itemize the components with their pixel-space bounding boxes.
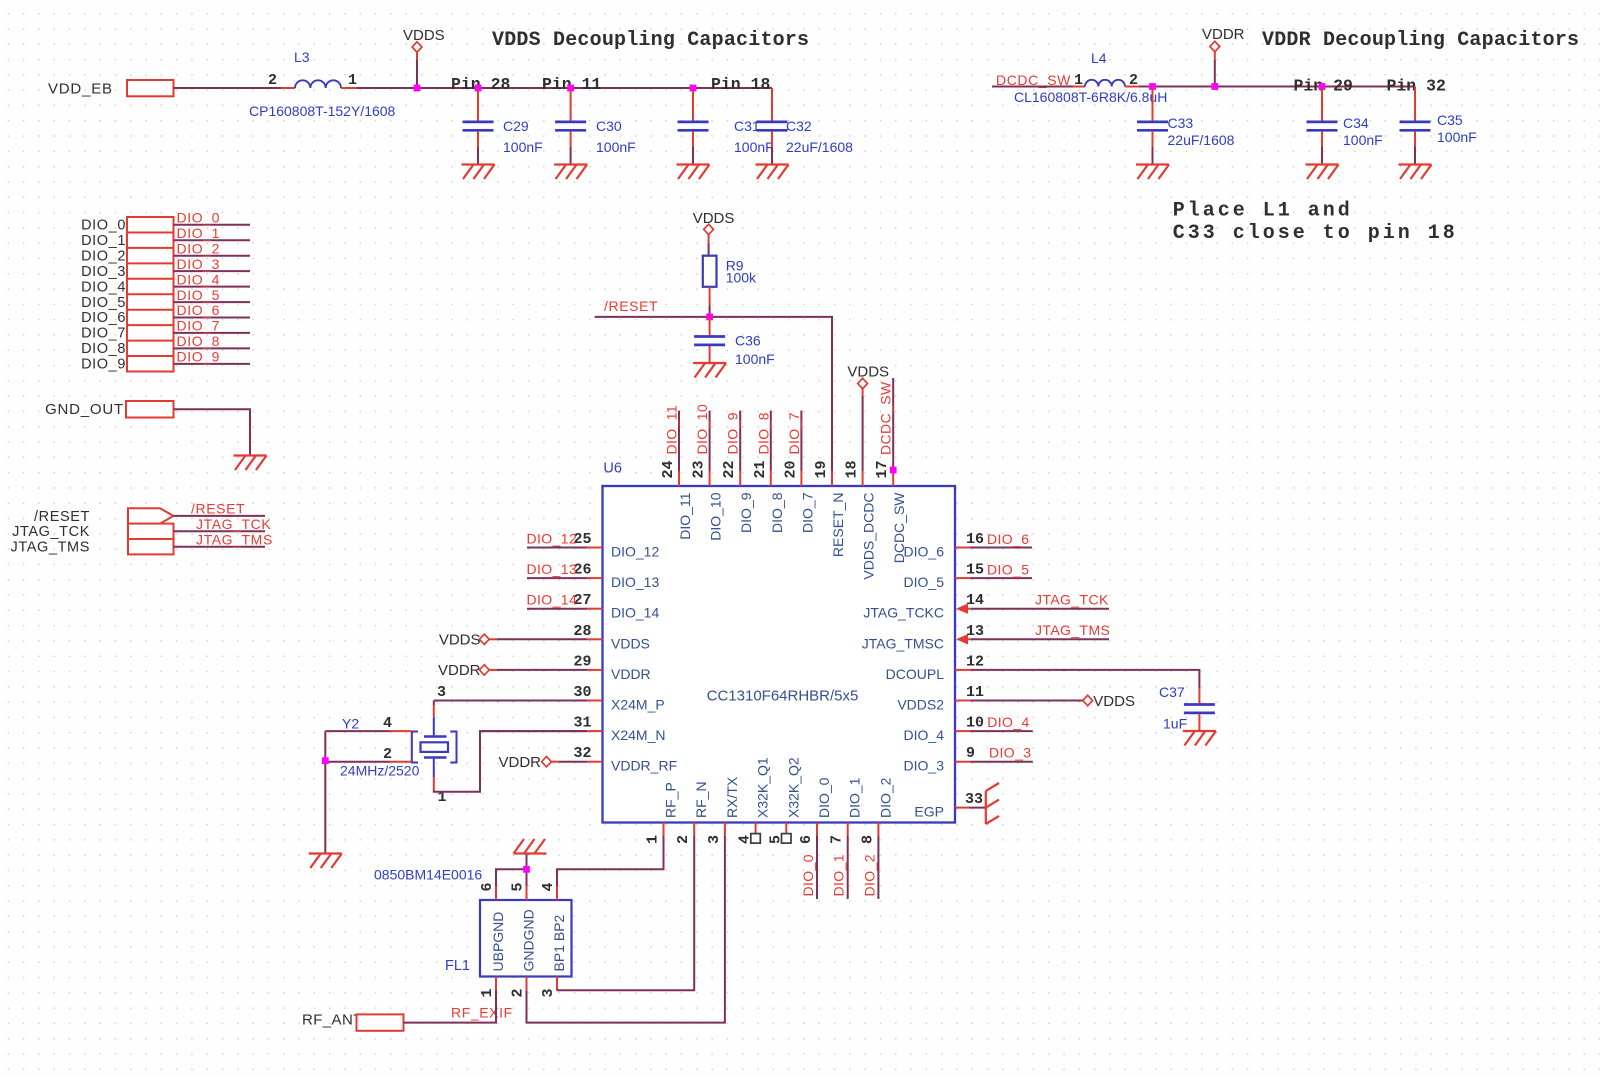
svg-text:12: 12 — [966, 653, 984, 670]
pin 10 (DIO_4) — [904, 715, 984, 744]
svg-text:33: 33 — [965, 791, 983, 808]
net label DIO_8 — [755, 411, 771, 471]
svg-text:DIO_9: DIO_9 — [725, 412, 741, 454]
svg-text:DIO_0: DIO_0 — [816, 777, 832, 818]
svg-text:10: 10 — [966, 715, 984, 732]
svg-text:DIO_9: DIO_9 — [81, 357, 126, 373]
svg-text:DIO_11: DIO_11 — [664, 405, 680, 455]
svg-text:22: 22 — [721, 460, 738, 478]
pin 9 (DIO_3) — [904, 745, 975, 774]
svg-text:30: 30 — [573, 684, 591, 701]
wire FL1 pin2 to RX/TX — [527, 836, 725, 1023]
svg-text:9: 9 — [966, 745, 975, 762]
svg-text:DIO_13: DIO_13 — [527, 561, 578, 577]
svg-text:DIO_6: DIO_6 — [904, 544, 945, 560]
svg-text:1: 1 — [1074, 72, 1083, 89]
svg-text:RX/TX: RX/TX — [724, 776, 740, 818]
pin 2 (RF_N) — [675, 781, 709, 844]
wire RF_ANT to FL1 pin1 — [404, 991, 497, 1023]
svg-text:100nF: 100nF — [503, 139, 543, 155]
pin 1 (RF_P) — [645, 782, 679, 844]
wire R9 to /RESET net — [709, 287, 711, 305]
svg-text:CC1310F64RHBR/5x5: CC1310F64RHBR/5x5 — [707, 688, 859, 705]
svg-text:DIO_2: DIO_2 — [877, 777, 893, 818]
svg-text:18: 18 — [844, 460, 861, 478]
svg-text:100nF: 100nF — [735, 351, 775, 367]
pin 22 (DIO_9) — [721, 460, 754, 532]
pin 27 (DIO_14) — [573, 592, 659, 621]
svg-text:FL1: FL1 — [445, 958, 470, 974]
node DIO_1 — [81, 225, 250, 249]
svg-text:RF_ANT: RF_ANT — [302, 1012, 363, 1029]
node DIO_9 — [81, 349, 250, 373]
ground — [554, 165, 587, 180]
svg-text:VDDS2: VDDS2 — [897, 697, 944, 713]
ground — [1306, 165, 1339, 180]
connector RF_ANT — [302, 1012, 404, 1031]
svg-text:Place L1 and: Place L1 and — [1173, 200, 1353, 223]
pin 26 (DIO_13) — [573, 562, 659, 591]
svg-text:VDDS: VDDS — [693, 210, 735, 227]
ground — [1183, 731, 1216, 746]
junction — [414, 85, 421, 92]
svg-text:/RESET: /RESET — [604, 298, 658, 314]
pin 4 (X32K_Q1) — [737, 757, 771, 844]
wire FL1 pin6 to pin5 ground — [496, 869, 527, 886]
pin 31 (X24M_N) — [573, 715, 665, 744]
wire DCOUPL to C37 — [971, 670, 1200, 688]
junction — [1149, 83, 1156, 90]
wire X24M_N — [480, 730, 587, 732]
pin 13 (JTAG_TMSC) — [862, 623, 984, 652]
svg-text:C34: C34 — [1343, 115, 1369, 131]
capacitor C34 — [1307, 88, 1383, 165]
svg-text:2: 2 — [1129, 72, 1138, 89]
svg-text:CP160808T-152Y/1608: CP160808T-152Y/1608 — [249, 103, 396, 119]
svg-text:DIO_1: DIO_1 — [177, 225, 220, 241]
svg-text:X32K_Q1: X32K_Q1 — [755, 757, 771, 818]
svg-text:CL160808T-6R8K/6.8uH: CL160808T-6R8K/6.8uH — [1014, 89, 1167, 105]
svg-text:DIO_7: DIO_7 — [799, 492, 815, 533]
power VDDS (pin 28) — [439, 632, 587, 649]
svg-text:DIO_9: DIO_9 — [177, 349, 220, 365]
svg-text:DIO_2: DIO_2 — [81, 248, 126, 264]
svg-text:GND_OUT: GND_OUT — [45, 401, 124, 418]
svg-text:C32: C32 — [786, 118, 812, 134]
node JTAG_TMS — [11, 531, 273, 555]
svg-text:6: 6 — [798, 835, 815, 844]
pin 23 (DIO_10) — [691, 460, 724, 540]
wire GND_OUT to ground — [174, 409, 251, 455]
pin 29 (VDDR) — [573, 653, 650, 682]
connector DIO header — [127, 217, 174, 372]
pin 25 (DIO_12) — [573, 531, 659, 560]
svg-text:Pin 18: Pin 18 — [711, 75, 771, 94]
pin 11 (VDDS2) — [897, 684, 984, 713]
net label DIO_2 — [861, 836, 878, 899]
svg-text:DCDC_SW: DCDC_SW — [878, 381, 894, 455]
svg-text:6: 6 — [479, 882, 496, 891]
net label DIO_5 — [971, 562, 1033, 579]
power VDDR (pin 29) — [438, 662, 587, 679]
svg-text:DIO_6: DIO_6 — [177, 302, 220, 318]
node DIO_3 — [81, 256, 250, 280]
pin 3 (RX/TX) — [706, 776, 740, 844]
power VDDS — [693, 210, 735, 256]
balun FL1 — [374, 867, 572, 977]
pin 8 (DIO_2) — [859, 777, 893, 844]
svg-text:29: 29 — [573, 653, 591, 670]
svg-text:DIO_7: DIO_7 — [177, 318, 220, 334]
pin 1 of FL1 — [479, 977, 496, 998]
svg-text:X24M_P: X24M_P — [611, 697, 665, 713]
svg-text:/RESET: /RESET — [34, 509, 90, 525]
svg-text:JTAG_TMS: JTAG_TMS — [1035, 622, 1110, 638]
svg-text:UBPGND: UBPGND — [490, 912, 506, 972]
pin 5 of FL1 — [510, 882, 527, 900]
resistor R9 — [703, 256, 757, 287]
power VDDS — [403, 27, 445, 88]
svg-text:17: 17 — [874, 460, 891, 478]
svg-text:11: 11 — [966, 684, 984, 701]
pin 30 (X24M_P) — [573, 684, 664, 713]
svg-text:/RESET: /RESET — [191, 501, 245, 517]
node JTAG_TCK — [12, 516, 271, 540]
svg-text:VDDS_DCDC: VDDS_DCDC — [861, 493, 877, 580]
svg-text:DIO_1: DIO_1 — [81, 233, 126, 249]
svg-text:1: 1 — [645, 835, 662, 844]
net label DIO_10 — [694, 404, 710, 471]
svg-text:4: 4 — [540, 882, 557, 891]
net label DIO_14 — [527, 592, 588, 609]
svg-text:100nF: 100nF — [1343, 132, 1383, 148]
svg-text:8: 8 — [859, 835, 876, 844]
svg-text:23: 23 — [691, 460, 708, 478]
svg-text:100nF: 100nF — [1437, 129, 1477, 145]
pin 17 (DCDC_SW) — [874, 460, 907, 563]
ground (up) — [514, 839, 547, 854]
net label JTAG_TMS — [971, 622, 1110, 639]
svg-text:13: 13 — [966, 623, 984, 640]
svg-text:RF_N: RF_N — [693, 781, 709, 818]
svg-text:VDDR_RF: VDDR_RF — [611, 758, 677, 774]
IC U6 CC1310F64RHBR — [603, 486, 956, 823]
ground EGP (pin 33) — [969, 783, 999, 824]
capacitor C31 — [678, 89, 774, 164]
ground — [309, 854, 342, 869]
svg-text:DIO_12: DIO_12 — [611, 544, 659, 560]
svg-text:100nF: 100nF — [734, 139, 774, 155]
ground — [234, 456, 267, 471]
ground — [693, 363, 726, 378]
pin 6 of FL1 — [479, 882, 496, 900]
svg-text:24: 24 — [660, 460, 677, 478]
capacitor C36 — [694, 317, 775, 367]
svg-text:DIO_5: DIO_5 — [81, 295, 126, 311]
svg-text:DIO_8: DIO_8 — [769, 492, 785, 533]
junction — [890, 467, 897, 474]
svg-text:21: 21 — [752, 460, 769, 478]
junction — [1211, 83, 1218, 90]
net label DIO_11 — [664, 405, 680, 471]
net label DCDC_SW (pin 17) — [878, 378, 894, 470]
junction — [706, 314, 713, 321]
ground — [677, 165, 710, 180]
svg-text:VDDS: VDDS — [611, 635, 650, 651]
svg-text:20: 20 — [782, 460, 799, 478]
svg-text:VDDR: VDDR — [498, 754, 541, 771]
svg-text:C35: C35 — [1437, 112, 1463, 128]
net label DIO_0 — [800, 836, 817, 899]
junction — [1319, 83, 1326, 90]
power VDDS (pin 18) — [847, 364, 889, 472]
svg-text:DIO_8: DIO_8 — [755, 412, 771, 454]
pin 16 (DIO_6) — [904, 531, 984, 560]
power VDDR — [1202, 26, 1245, 87]
capacitor C33 — [1137, 88, 1235, 165]
svg-text:DIO_14: DIO_14 — [527, 592, 578, 608]
svg-text:VDDS: VDDS — [1093, 693, 1135, 710]
svg-text:JTAG_TCKC: JTAG_TCKC — [863, 605, 944, 621]
node DIO_4 — [81, 271, 250, 295]
svg-text:X32K_Q2: X32K_Q2 — [785, 757, 801, 818]
svg-text:DIO_1: DIO_1 — [847, 777, 863, 818]
svg-text:DIO_3: DIO_3 — [177, 256, 220, 272]
power VDDS (pin 11) — [971, 693, 1135, 710]
svg-text:VDDR Decoupling Capacitors: VDDR Decoupling Capacitors — [1262, 29, 1579, 52]
svg-text:VDDR: VDDR — [1202, 26, 1245, 43]
svg-text:DIO_8: DIO_8 — [177, 333, 220, 349]
pin 19 (RESET_N) — [813, 460, 846, 557]
svg-text:C31: C31 — [734, 118, 760, 134]
svg-text:DIO_5: DIO_5 — [177, 287, 220, 303]
svg-text:JTAG_TCK: JTAG_TCK — [1035, 592, 1109, 608]
pin 18 (VDDS_DCDC) — [844, 460, 877, 579]
svg-text:DIO_3: DIO_3 — [904, 758, 945, 774]
pin 21 (DIO_8) — [752, 460, 785, 532]
svg-text:JTAG_TMSC: JTAG_TMSC — [862, 635, 944, 651]
svg-text:14: 14 — [966, 592, 984, 609]
svg-text:DIO_2: DIO_2 — [861, 854, 877, 896]
node DIO_0 — [81, 210, 250, 234]
svg-text:DCOUPL: DCOUPL — [886, 666, 945, 682]
junction — [567, 85, 574, 92]
svg-text:GNDGND: GNDGND — [521, 909, 537, 971]
svg-text:15: 15 — [966, 562, 984, 579]
svg-text:DIO_7: DIO_7 — [81, 326, 126, 342]
svg-text:7: 7 — [829, 835, 846, 844]
svg-text:C37: C37 — [1159, 684, 1185, 700]
svg-text:DCDC_SW: DCDC_SW — [891, 492, 907, 564]
svg-text:0850BM14E0016: 0850BM14E0016 — [374, 867, 482, 883]
svg-text:DIO_13: DIO_13 — [611, 574, 659, 590]
ground — [462, 165, 495, 180]
svg-text:2: 2 — [510, 988, 527, 997]
svg-text:22uF/1608: 22uF/1608 — [786, 139, 853, 155]
pin 2 of FL1 — [510, 977, 527, 998]
svg-text:22uF/1608: 22uF/1608 — [1168, 132, 1235, 148]
wire DCDC_SW to L4 — [992, 86, 1073, 88]
svg-text:3: 3 — [437, 684, 446, 701]
svg-text:2: 2 — [675, 835, 692, 844]
node /RESET — [34, 501, 265, 526]
pin 14 (JTAG_TCKC) — [863, 592, 984, 621]
crystal Y2 — [340, 705, 457, 806]
connector VDD_EB — [48, 80, 174, 98]
svg-text:DIO_2: DIO_2 — [177, 240, 220, 256]
svg-text:3: 3 — [706, 835, 723, 844]
net label DIO_13 — [527, 561, 588, 578]
pin 12 (DCOUPL) — [886, 653, 984, 682]
svg-text:VDDS: VDDS — [403, 27, 445, 44]
svg-text:VDDS: VDDS — [847, 364, 889, 381]
svg-text:X24M_N: X24M_N — [611, 727, 665, 743]
svg-text:2: 2 — [268, 72, 277, 89]
svg-text:1: 1 — [348, 72, 357, 89]
node DIO_2 — [81, 240, 250, 264]
node DIO_8 — [81, 333, 250, 357]
svg-text:VDDS: VDDS — [439, 632, 481, 649]
svg-text:RESET_N: RESET_N — [830, 493, 846, 558]
svg-text:L4: L4 — [1091, 50, 1107, 66]
wire FL1 pin5 to ground — [526, 854, 528, 887]
capacitor C37 — [1159, 684, 1215, 732]
svg-text:DIO_5: DIO_5 — [904, 574, 945, 590]
node DIO_6 — [81, 302, 250, 326]
wire VDD_EB to L3 — [174, 87, 282, 89]
svg-text:C33 close to pin 18: C33 close to pin 18 — [1173, 222, 1458, 245]
pin 28 (VDDS) — [573, 623, 649, 652]
svg-text:DIO_5: DIO_5 — [987, 562, 1029, 578]
svg-text:DIO_1: DIO_1 — [831, 854, 847, 896]
svg-text:DIO_8: DIO_8 — [81, 341, 126, 357]
svg-text:DIO_10: DIO_10 — [694, 404, 710, 455]
svg-text:BP1 BP2: BP1 BP2 — [551, 914, 567, 971]
svg-text:DIO_4: DIO_4 — [987, 714, 1029, 730]
ground — [1399, 165, 1432, 180]
junction — [690, 85, 697, 92]
inductor L4 — [1014, 50, 1167, 105]
svg-text:100k: 100k — [726, 270, 757, 286]
net label JTAG_TCK — [971, 592, 1109, 609]
svg-text:DIO_6: DIO_6 — [81, 310, 126, 326]
svg-text:JTAG_TCK: JTAG_TCK — [196, 516, 271, 532]
junction — [322, 757, 329, 764]
svg-text:JTAG_TCK: JTAG_TCK — [12, 524, 90, 540]
svg-text:VDDR: VDDR — [438, 662, 481, 679]
pin 7 (DIO_1) — [829, 777, 863, 844]
svg-text:VDD_EB: VDD_EB — [48, 81, 113, 98]
svg-text:32: 32 — [573, 745, 591, 762]
svg-text:C36: C36 — [735, 333, 761, 349]
net label DIO_3 — [971, 745, 1033, 762]
capacitor C32 — [757, 88, 854, 164]
wire FL1 pin4 to RF_P — [557, 836, 664, 886]
net label DIO_12 — [527, 531, 588, 548]
wire X24M_P — [434, 684, 587, 701]
junction — [475, 85, 482, 92]
svg-text:Y2: Y2 — [342, 716, 359, 732]
capacitor C35 — [1400, 87, 1477, 165]
net label DIO_1 — [831, 836, 848, 899]
svg-text:C29: C29 — [503, 118, 529, 134]
wire /RESET — [595, 317, 832, 471]
svg-text:JTAG_TMS: JTAG_TMS — [196, 531, 273, 547]
svg-text:DIO_0: DIO_0 — [800, 854, 816, 896]
svg-text:DIO_7: DIO_7 — [786, 412, 802, 454]
power VDDR (pin 32) — [498, 754, 587, 771]
svg-text:4: 4 — [383, 715, 392, 732]
pin 4 of FL1 — [540, 882, 557, 900]
pin 15 (DIO_5) — [904, 562, 984, 591]
svg-text:RF_EXIF: RF_EXIF — [451, 1005, 513, 1021]
wire VDDR rail — [1139, 86, 1415, 88]
svg-text:L3: L3 — [294, 49, 310, 65]
inductor L3 — [249, 49, 396, 119]
svg-text:DIO_14: DIO_14 — [611, 605, 659, 621]
svg-text:C33: C33 — [1168, 115, 1194, 131]
svg-text:19: 19 — [813, 460, 830, 478]
svg-text:16: 16 — [966, 531, 984, 548]
wire to ground — [324, 731, 326, 853]
wire crystal pin 2 — [325, 761, 412, 763]
svg-text:24MHz/2520: 24MHz/2520 — [340, 763, 420, 779]
svg-text:100nF: 100nF — [596, 139, 636, 155]
net label DIO_6 — [971, 531, 1033, 548]
pin 6 (DIO_0) — [798, 777, 832, 844]
svg-text:VDDR: VDDR — [611, 666, 651, 682]
svg-text:DIO_10: DIO_10 — [708, 492, 724, 540]
pin 5 (X32K_Q2) — [767, 757, 801, 844]
svg-text:5: 5 — [510, 882, 527, 891]
ground — [1136, 165, 1169, 180]
capacitor C29 — [463, 89, 543, 164]
svg-text:1: 1 — [479, 988, 496, 997]
svg-text:JTAG_TMS: JTAG_TMS — [11, 540, 90, 556]
wire X24M_P to crystal — [433, 701, 435, 706]
svg-text:1uF: 1uF — [1163, 716, 1187, 732]
wire VDDS rail — [357, 87, 772, 89]
node DIO_7 — [81, 318, 250, 342]
svg-text:C30: C30 — [596, 118, 622, 134]
capacitor C30 — [555, 89, 636, 164]
wire crystal pin 4 — [325, 730, 412, 732]
pin 32 (VDDR_RF) — [573, 745, 677, 774]
svg-text:DIO_12: DIO_12 — [527, 531, 578, 547]
net label DIO_9 — [725, 411, 741, 471]
svg-text:DIO_0: DIO_0 — [81, 218, 126, 234]
connector GND_OUT — [45, 401, 173, 418]
svg-text:DIO_9: DIO_9 — [738, 492, 754, 533]
svg-text:DIO_6: DIO_6 — [987, 531, 1029, 547]
connector JTAG — [128, 508, 174, 554]
svg-text:DIO_4: DIO_4 — [904, 727, 945, 743]
junction — [523, 866, 530, 873]
svg-text:RF_P: RF_P — [663, 782, 679, 818]
node DIO_5 — [81, 287, 250, 311]
svg-text:VDDS Decoupling Capacitors: VDDS Decoupling Capacitors — [492, 29, 809, 52]
svg-text:2: 2 — [383, 746, 392, 763]
svg-text:U6: U6 — [603, 461, 622, 477]
pin 3 of FL1 — [540, 977, 557, 998]
ground — [756, 165, 789, 180]
pin 20 (DIO_7) — [782, 460, 815, 532]
svg-text:EGP: EGP — [914, 804, 944, 820]
svg-text:DIO_11: DIO_11 — [677, 492, 693, 539]
svg-text:DIO_3: DIO_3 — [989, 745, 1031, 761]
pin 24 (DIO_11) — [660, 460, 693, 539]
net label DIO_7 — [786, 411, 802, 471]
